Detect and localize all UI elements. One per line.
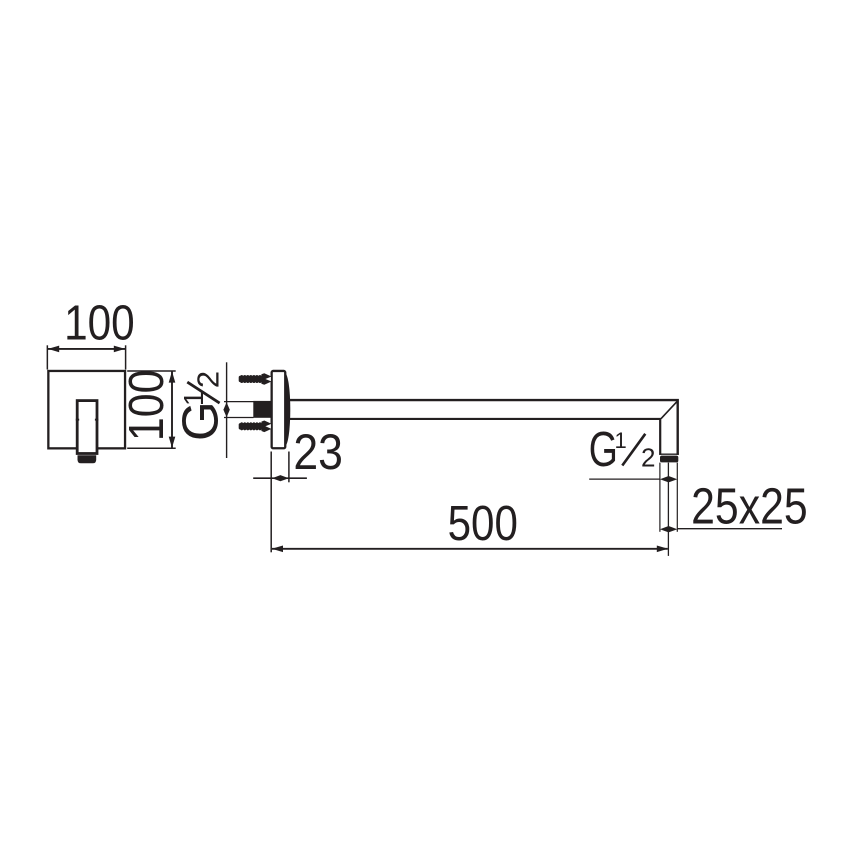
svg-text:2: 2 <box>641 442 655 472</box>
upper 25 dimension leader (left) <box>589 478 660 480</box>
lower screw <box>239 421 271 433</box>
stub bottom seam line <box>659 453 678 455</box>
dimension 100 right: top extension line <box>127 370 176 372</box>
arm seen end-on (front view vertical rectangle) <box>77 401 97 454</box>
dimension 100 right: dimension line <box>171 371 173 448</box>
lower 25 dimension leader (right) <box>677 528 782 530</box>
svg-text:2: 2 <box>191 371 226 388</box>
svg-text:100: 100 <box>64 296 135 350</box>
flange bulge (black crescent behind plate) <box>280 373 291 446</box>
stub center extension line (500) <box>667 463 669 556</box>
dimension 100 top: left extension line <box>46 345 48 369</box>
black thread cap (front view) <box>78 455 97 463</box>
G1/2 vertical dimension line <box>226 362 228 458</box>
shower arm top outline <box>287 400 678 455</box>
dimension 100 right: bottom extension line <box>127 447 176 449</box>
500 dimension line <box>272 548 668 550</box>
23 dimension: right extension line <box>288 452 290 483</box>
svg-text:500: 500 <box>448 496 518 551</box>
upper 25 diamond arrows <box>660 476 677 482</box>
svg-text:G: G <box>171 401 228 441</box>
lower 25 diamond arrows <box>660 526 677 532</box>
dimension 100 top: left arrowhead <box>48 346 59 353</box>
23 dimension line <box>253 477 307 479</box>
wall plate square (front view) <box>48 371 125 448</box>
left tick on arm rectangle <box>76 419 79 421</box>
G1/2 top extension line <box>224 401 254 403</box>
dimension 100 right: bottom arrowhead <box>169 437 176 448</box>
shower arm bottom outline <box>287 419 660 455</box>
G1/2 bottom extension line <box>224 417 254 419</box>
dimension 100 top: right extension line <box>125 345 127 369</box>
label G1/2 (rotated, side view) <box>171 371 228 441</box>
label G1/2 (right end) <box>589 422 656 477</box>
stub right extension line <box>676 463 678 532</box>
23 dimension: left shared extension line <box>270 452 272 553</box>
23 diamond arrows <box>272 475 289 481</box>
dimension 100 right: top arrowhead <box>169 371 176 382</box>
wall flange plate (side view) <box>272 371 286 448</box>
svg-text:23: 23 <box>293 424 343 480</box>
corner diagonal <box>661 401 678 419</box>
svg-text:100: 100 <box>120 370 174 442</box>
500 left arrowhead <box>272 546 283 553</box>
dimension 100 top: dimension line <box>48 348 125 350</box>
black thread band (right stub) <box>660 456 678 463</box>
dimension 100 top: right arrowhead <box>114 346 125 353</box>
stub left extension line <box>659 463 661 532</box>
G1/2 double arrow diamond <box>223 402 229 417</box>
500 right arrowhead <box>657 546 668 553</box>
G1/2 thread inlet (black square) <box>253 401 271 418</box>
svg-text:25x25: 25x25 <box>691 477 808 534</box>
dimension text 100 (rotated right of square) <box>120 370 174 442</box>
svg-text:1: 1 <box>615 428 627 453</box>
right tick on arm rectangle <box>95 419 98 421</box>
upper screw <box>239 373 271 385</box>
